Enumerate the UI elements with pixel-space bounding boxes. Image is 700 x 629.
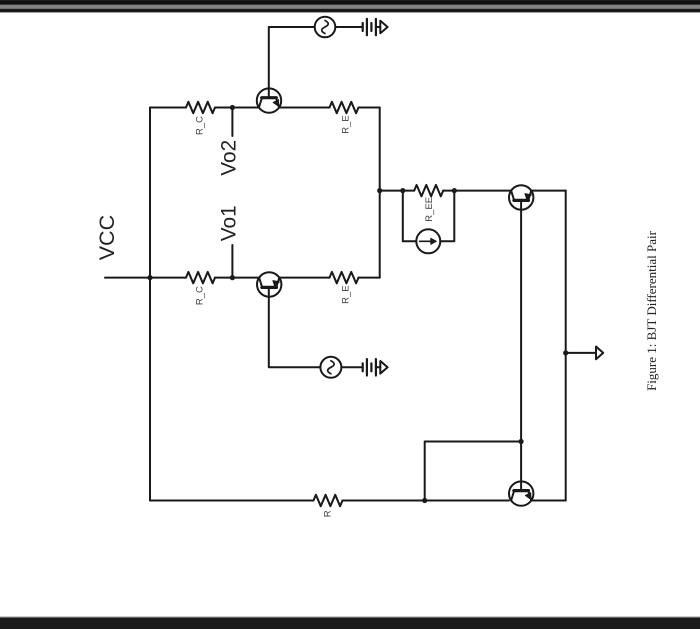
Q4 base wire up bbox=[520, 442, 522, 491]
wire tail to R_EE left node bbox=[380, 190, 403, 192]
resistor R_EE bbox=[414, 185, 443, 196]
battery/ground symbol (bottom) bbox=[363, 359, 388, 375]
VCC supply lead bbox=[105, 277, 150, 279]
wire VCC rail to R_C (top) bbox=[150, 107, 186, 109]
mirror diode-connection wire bbox=[425, 442, 521, 501]
svg-text:R_E: R_E bbox=[341, 285, 352, 303]
left VCC rail wire bbox=[149, 108, 151, 501]
transistor Q4 (bottom right BJT) bbox=[509, 481, 533, 505]
transistor Q1 (top left BJT) bbox=[257, 88, 281, 112]
wire tail node to Q3 bbox=[454, 190, 510, 192]
current source I1 bbox=[416, 229, 440, 253]
wire Q2 emitter to R_E (bottom) bbox=[279, 277, 329, 279]
AC source V2 (bottom) bbox=[320, 357, 341, 378]
node output tap dot bbox=[563, 350, 568, 355]
node Vo1 junction dot bbox=[230, 275, 235, 280]
AC source V1 (top) bbox=[315, 17, 336, 38]
wire Q3 to right rail bbox=[531, 190, 565, 192]
resistor R_E (top) bbox=[330, 102, 359, 113]
viewer top page-gap bar bbox=[0, 0, 700, 14]
current source branch right wire bbox=[440, 191, 454, 242]
Vo2 stub wire bbox=[231, 108, 233, 137]
Q1 base wire up to source bbox=[269, 27, 315, 98]
wire R to mirror node bbox=[343, 500, 509, 502]
wire R_EE to right node bbox=[443, 190, 454, 192]
output arrow head bbox=[596, 347, 603, 360]
viewer bottom bar bbox=[0, 616, 700, 629]
wire source to ground (top) bbox=[335, 26, 362, 28]
node VCC junction dot bbox=[147, 275, 152, 280]
svg-text:R: R bbox=[323, 510, 334, 517]
node R_EE left junction dot bbox=[400, 188, 405, 193]
node tail junction dot bbox=[377, 188, 382, 193]
wire VCC rail to R_C (bottom) bbox=[150, 277, 186, 279]
wire to R_EE bbox=[403, 190, 414, 192]
resistor R_C (bottom) bbox=[186, 272, 215, 283]
wire VCC rail to R (bottom branch) bbox=[150, 500, 314, 502]
resistor R_C (top) bbox=[186, 102, 215, 113]
wire R_E to mid rail (top) bbox=[359, 107, 380, 109]
Vo1 stub wire bbox=[231, 245, 233, 278]
node Vo2 junction dot bbox=[230, 105, 235, 110]
Q3 base wire down bbox=[520, 200, 522, 441]
wire R_E to mid rail (bottom) bbox=[359, 277, 380, 279]
svg-text:VCC: VCC bbox=[95, 215, 119, 260]
svg-text:Vo2: Vo2 bbox=[218, 140, 241, 176]
svg-text:R_E: R_E bbox=[341, 115, 352, 133]
wire Q4 emitter to right rail bbox=[531, 500, 565, 502]
mid vertical wire bbox=[379, 108, 381, 278]
right rail wire bbox=[565, 191, 567, 501]
resistor R_E (bottom) bbox=[330, 272, 359, 283]
svg-text:R_EE: R_EE bbox=[424, 197, 435, 222]
wire source to ground (bottom) bbox=[341, 366, 362, 368]
wire R_C to Vo2 node bbox=[215, 107, 259, 109]
svg-text:R_C: R_C bbox=[195, 116, 206, 135]
node R_EE right junction dot bbox=[452, 188, 457, 193]
node mirror feedback dot bbox=[422, 498, 427, 503]
battery/ground symbol (top) bbox=[363, 19, 388, 35]
current source branch left wire bbox=[403, 191, 417, 242]
wire Q1 emitter to R_E (top) bbox=[279, 107, 329, 109]
Q2 base wire down to source bbox=[269, 287, 321, 367]
output tap wire bbox=[566, 352, 596, 354]
figure caption bbox=[638, 211, 666, 411]
transistor Q3 (top right BJT) bbox=[509, 185, 533, 209]
svg-text:Vo1: Vo1 bbox=[218, 205, 241, 241]
transistor Q2 (bottom left BJT) bbox=[257, 272, 281, 296]
node mirror base junction dot bbox=[519, 439, 524, 444]
wire R_C to Vo1 node bbox=[215, 277, 259, 279]
resistor R bbox=[314, 495, 343, 506]
svg-text:R_C: R_C bbox=[195, 286, 206, 305]
